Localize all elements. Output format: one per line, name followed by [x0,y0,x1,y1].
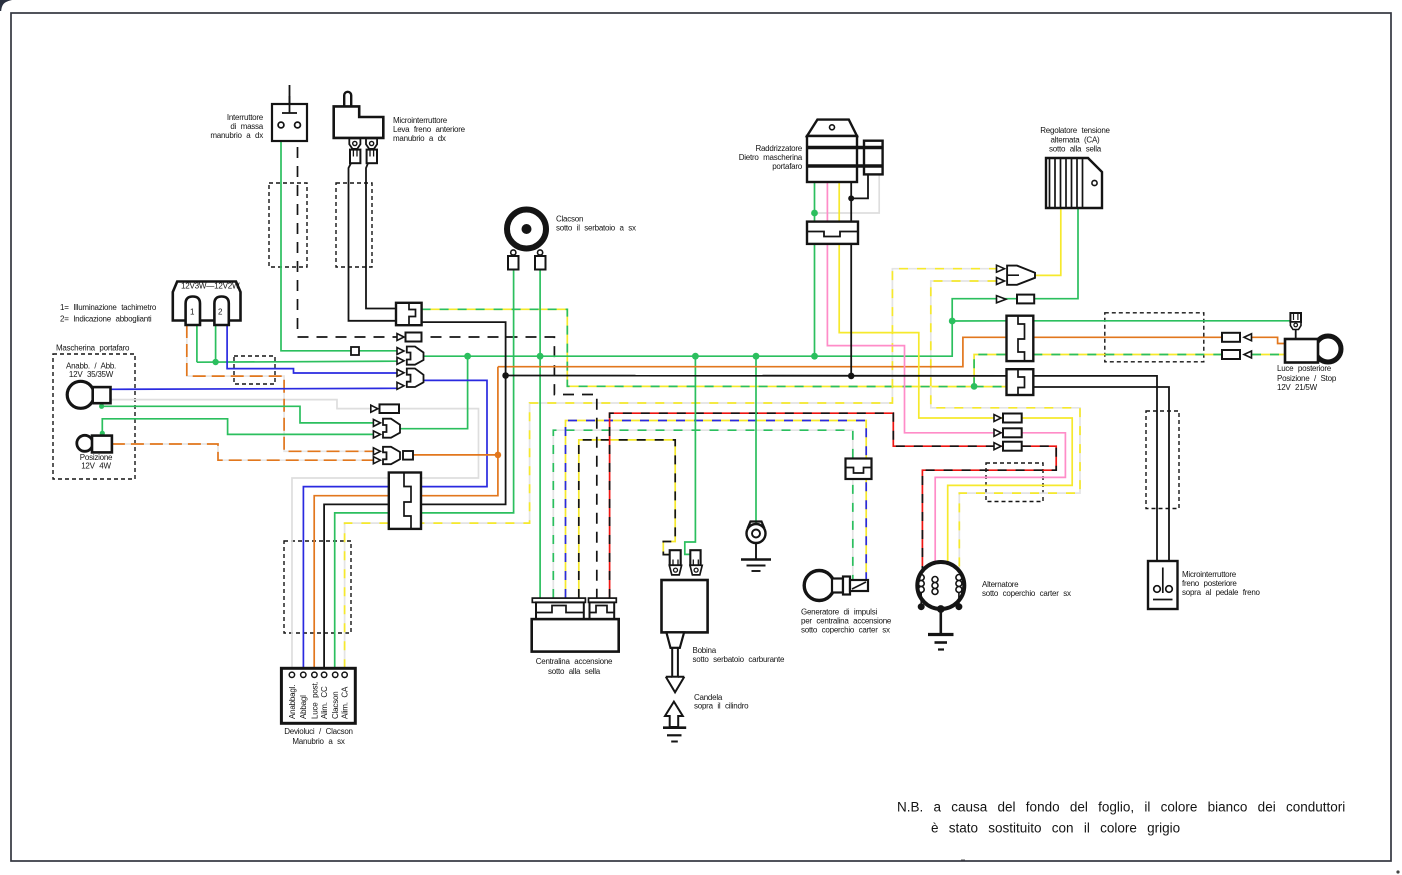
svg-text:Alim. CA: Alim. CA [341,686,350,719]
svg-text:Centralina accensione: Centralina accensione [536,657,613,666]
svg-text:per centralina accensione: per centralina accensione [801,617,892,626]
svg-text:Clacson: Clacson [331,691,340,719]
svg-text:Dietro mascherina: Dietro mascherina [739,153,803,162]
svg-text:Generatore di impulsi: Generatore di impulsi [801,608,877,617]
svg-text:Raddrizzatore: Raddrizzatore [755,144,802,153]
svg-text:2= Indicazione abboglianti: 2= Indicazione abboglianti [60,315,152,324]
svg-text:Abbagl: Abbagl [299,695,308,719]
svg-text:sotto coperchio carter sx: sotto coperchio carter sx [801,626,890,635]
svg-text:Luce post.: Luce post. [310,681,319,719]
svg-text:sopra al pedale freno: sopra al pedale freno [1182,588,1261,597]
svg-text:Posizione / Stop: Posizione / Stop [1277,374,1337,383]
svg-text:Regolatore tensione: Regolatore tensione [1040,126,1110,135]
svg-text:Alim. CC: Alim. CC [320,686,329,719]
svg-text:sotto il serbatoio a sx: sotto il serbatoio a sx [556,224,636,233]
svg-text:Mascherina portafaro: Mascherina portafaro [56,344,130,353]
svg-text:Luce posteriore: Luce posteriore [1277,364,1332,373]
svg-text:sopra il cilindro: sopra il cilindro [694,702,749,711]
svg-text:1= Illuminazione tachimetro: 1= Illuminazione tachimetro [60,303,157,312]
svg-text:Anabbagl.: Anabbagl. [288,685,297,719]
svg-text:Manubrio a sx: Manubrio a sx [292,737,344,746]
svg-text:12V 4W: 12V 4W [81,462,111,471]
svg-text:sotto alla sella: sotto alla sella [1049,145,1102,154]
svg-text:N.B. a causa del fondo de: N.B. a causa del fondo del foglio, il co… [897,800,1345,815]
svg-text:Alternatore: Alternatore [982,580,1019,589]
svg-text:Leva freno anteriore: Leva freno anteriore [393,125,466,134]
svg-text:portafaro: portafaro [772,162,803,171]
svg-text:Microinterruttore: Microinterruttore [1182,570,1237,579]
svg-text:Clacson: Clacson [556,215,583,224]
svg-text:12V3W—12V2W: 12V3W—12V2W [181,282,240,291]
svg-text:Microinterruttore: Microinterruttore [393,116,448,125]
svg-text:Interruttore: Interruttore [227,113,264,122]
svg-text:manubrio a dx: manubrio a dx [393,134,446,143]
svg-text:di massa: di massa [230,122,263,131]
svg-text:12V 35/35W: 12V 35/35W [69,370,114,379]
svg-text:manubrio a dx: manubrio a dx [210,131,263,140]
svg-text:è stato sostituito con il: è stato sostituito con il colore grigio [931,821,1180,836]
svg-text:sotto serbatoio carburante: sotto serbatoio carburante [693,655,785,664]
svg-text:freno posteriore: freno posteriore [1182,579,1237,588]
svg-text:sotto alla sella: sotto alla sella [548,667,601,676]
svg-text:Bobina: Bobina [693,646,717,655]
svg-text:Devioluci / Clacson: Devioluci / Clacson [284,727,352,736]
svg-text:sotto coperchio carter sx: sotto coperchio carter sx [982,589,1071,598]
svg-text:12V 21/5W: 12V 21/5W [1277,383,1318,392]
svg-text:alternata (CA): alternata (CA) [1051,136,1100,145]
